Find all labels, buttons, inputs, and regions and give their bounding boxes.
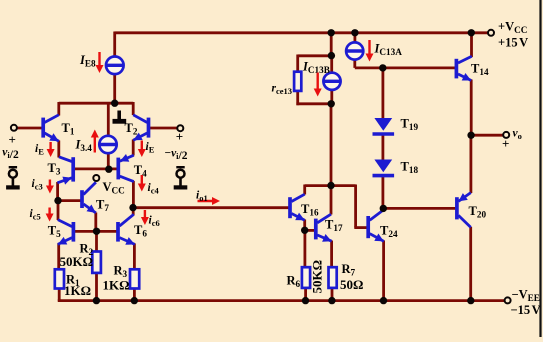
junction vo node [467, 132, 474, 139]
ground left input [6, 167, 20, 187]
wire T7 emitter drop [94, 213, 97, 233]
svg-text:+15V: +15V [498, 36, 528, 50]
wire IC13A lower [353, 59, 356, 68]
wire IE8 branch upper [113, 32, 116, 58]
wire T2 emitter to T4 emitter [132, 140, 135, 156]
wire T24 base vertical [354, 185, 357, 228]
junction T3c/T5c/T7b node [54, 197, 61, 204]
label T4 [134, 163, 147, 179]
junction io1 node [129, 204, 136, 211]
wire R1 to rail [58, 288, 61, 301]
label T16 [301, 202, 319, 218]
diode T18 [373, 160, 395, 176]
label vi/2 [2, 147, 19, 162]
wire T17 collector rise [330, 184, 333, 215]
current arrow iE right [138, 141, 146, 158]
label iE right [146, 141, 155, 155]
terminal Vcc mid [93, 175, 99, 181]
current source IC13B [323, 73, 340, 90]
label T6 [134, 223, 147, 239]
wire T14 base horizontal [355, 67, 456, 70]
wire IC13B lower [330, 90, 333, 106]
wire IC13B top drop [330, 32, 333, 57]
current arrow io1 [198, 197, 221, 205]
wire T5 emitter to R1 [57, 244, 60, 270]
label io1 [196, 190, 208, 204]
wire T24 emitter drop [382, 241, 385, 302]
junction rail R3 [131, 297, 138, 304]
transistor T5 [58, 220, 74, 245]
terminal -Vee [505, 297, 511, 303]
wire T17 emitter to R7 [330, 241, 333, 268]
label left input plus [9, 132, 16, 147]
wire T3-T4 base link [75, 167, 118, 170]
label ic3 [32, 178, 43, 192]
label IE8 [79, 53, 96, 69]
ground right input [174, 167, 188, 187]
junction T14 base / diode chain [379, 64, 386, 71]
current arrow ic5 [46, 208, 54, 222]
junction T16e/T17b node [301, 227, 308, 234]
junction rail IC13B [328, 29, 335, 36]
junction rce13 bottom [328, 100, 335, 107]
resistor R7 [329, 267, 337, 288]
current arrow ic4 [138, 175, 146, 192]
current arrow ic3 [46, 180, 54, 194]
label ic4 [148, 182, 160, 196]
wire diode chain lower [381, 175, 384, 210]
label right input plus [176, 129, 183, 144]
junction rail T24e [380, 297, 387, 304]
wire T17 base link [304, 229, 316, 232]
wire T20 collector to rail [469, 227, 472, 301]
label R7 value 50 [340, 277, 363, 292]
wire rce13 top link [298, 54, 332, 57]
wire rce13 upper [296, 55, 299, 72]
current arrow IC13A [366, 40, 374, 62]
label R3 value 1K [103, 278, 130, 293]
label R1 value 1K [64, 283, 91, 298]
label rce13 [272, 83, 293, 97]
label T3 [48, 161, 61, 177]
label ic5 [30, 208, 41, 222]
transistor T17 [316, 214, 332, 242]
svg-text:1KΩ: 1KΩ [64, 283, 91, 298]
junction rail T20c [467, 297, 474, 304]
wire rce13 bottom link [296, 102, 332, 105]
wire T16 collector drop [303, 185, 306, 195]
terminal left input [11, 125, 17, 131]
current arrow ic6 [141, 210, 149, 225]
transistor T14 [456, 56, 471, 80]
junction rail T14 collector [468, 29, 475, 36]
wire diode chain upper [381, 66, 384, 119]
wire node to R6 [303, 230, 306, 268]
wire R7 to rail [331, 288, 334, 301]
current source IC13A [346, 42, 363, 59]
node mark T2 collector tab [113, 111, 127, 122]
label -vi/2 [165, 148, 188, 163]
wire top +Vcc rail [115, 31, 490, 34]
wire T3 collector to node [56, 182, 59, 202]
current arrow I3.4 [91, 130, 99, 153]
label -Vee [512, 288, 540, 304]
wire IC13B node down to mirror node [330, 103, 333, 187]
wire IC13B upper [330, 55, 333, 74]
svg-text:50KΩ: 50KΩ [310, 260, 325, 294]
resistor rce13 [294, 72, 301, 91]
current arrow IE8 [96, 52, 104, 73]
label Vcc mid [103, 180, 125, 196]
svg-text:−15V: −15V [511, 303, 541, 317]
transistor T7 [82, 182, 96, 213]
label T19 [401, 117, 419, 133]
label I3.4 [75, 138, 93, 154]
label iE left [35, 143, 44, 157]
wire diode T19-T18 link [381, 133, 384, 161]
label ic6 [149, 215, 160, 229]
label T14 [471, 62, 489, 78]
label R3 [114, 264, 128, 280]
resistor R1 [55, 269, 64, 288]
label R6 [287, 274, 301, 290]
svg-text:50Ω: 50Ω [340, 277, 363, 292]
wire I3.4 branch lower [107, 152, 110, 170]
wire IE8 branch lower [113, 74, 116, 105]
svg-text:+: + [502, 136, 509, 151]
wire rce13 lower [296, 91, 299, 106]
junction rail R7 [328, 297, 335, 304]
label +15V [498, 36, 528, 50]
wire T6 emitter to R3 [133, 244, 136, 270]
label T24 [380, 224, 398, 240]
label R7 [342, 262, 356, 278]
svg-text:50KΩ: 50KΩ [60, 254, 94, 269]
wire IC13A top drop [353, 32, 356, 44]
wire io1 horizontal [133, 206, 289, 209]
wire node to T5 collector [57, 201, 60, 221]
label T17 [325, 218, 343, 234]
label T20 [469, 204, 487, 220]
transistor T4 [118, 154, 134, 182]
wire T20 base horizontal [383, 207, 457, 210]
wire T7 base [58, 199, 82, 202]
svg-text:1KΩ: 1KΩ [103, 278, 130, 293]
transistor T16 [290, 194, 305, 220]
wire T4 collector to io1 node [132, 181, 135, 209]
wire T14 collector drop [470, 32, 473, 58]
wire mirror horizontal [305, 184, 356, 187]
wire base node to R2 [95, 231, 98, 252]
label +Vcc [498, 20, 527, 36]
label IC13B [302, 60, 330, 76]
wire vo horizontal [471, 134, 505, 137]
current source IE8 [106, 57, 124, 75]
junction T5-T6 base / T7e [93, 228, 100, 235]
terminal vo [503, 132, 509, 138]
wire R6 to rail [304, 288, 307, 301]
wire left rail [59, 102, 133, 105]
label T7 [96, 198, 109, 214]
junction bias node [105, 166, 112, 173]
transistor T1 [43, 115, 59, 141]
resistor R3 [130, 269, 139, 288]
transistor T20 [457, 193, 471, 228]
terminal right input [177, 125, 183, 131]
svg-text:+: + [176, 129, 183, 144]
junction rce13 top [328, 52, 335, 59]
diode T19 [373, 118, 395, 134]
wire T2 base [150, 127, 178, 130]
wire T2 collector drop [132, 102, 135, 115]
label IC13A [374, 42, 403, 58]
transistor T6 [118, 214, 135, 245]
junction rail IC13A [351, 29, 358, 36]
label R1 [66, 273, 80, 289]
wire io1 node to T6 collector [132, 208, 135, 216]
current arrow iE left [47, 142, 55, 157]
wire T24 base horizontal [354, 226, 367, 229]
wire T1 emitter to T3 emitter [57, 141, 60, 158]
label vo plus [502, 136, 509, 151]
transistor T24 [368, 210, 384, 242]
label T18 [401, 160, 419, 176]
transistor T2 [133, 115, 148, 140]
resistor R2 [92, 252, 101, 273]
current source I3.4 [99, 136, 116, 153]
label -15V [511, 303, 541, 317]
wire vo node to T20 emitter [469, 135, 472, 194]
svg-text:+: + [9, 132, 16, 147]
wire T14 emitter to vo node [470, 80, 473, 137]
junction rail R2 [93, 297, 100, 304]
label R2 [80, 242, 94, 258]
label T2 [125, 121, 138, 137]
wire R2 to rail [95, 273, 98, 302]
label R2 value 50K [60, 254, 94, 269]
terminal +Vcc [488, 30, 494, 36]
wire T5 base to T6 base [75, 230, 117, 233]
junction top rail / IE8 [111, 100, 118, 107]
wire bottom -Vee rail [58, 299, 506, 302]
current arrow IC13B [314, 73, 322, 97]
label T1 [62, 121, 75, 137]
transistor T3 [57, 157, 73, 185]
junction rail R6 [302, 297, 309, 304]
label T5 [48, 224, 61, 240]
wire R3 to rail [133, 288, 136, 301]
wire T1 base [17, 127, 43, 130]
wire T1 collector drop [57, 102, 60, 116]
resistor R6 [302, 267, 310, 288]
junction diode bottom / T24c / T20b [380, 205, 387, 212]
label vo [513, 128, 522, 142]
wire T16 emitter to node [303, 220, 306, 232]
junction mirror node [327, 182, 334, 189]
label R6 value 50K rotated [310, 260, 325, 294]
wire I3.4 branch upper [107, 102, 110, 137]
